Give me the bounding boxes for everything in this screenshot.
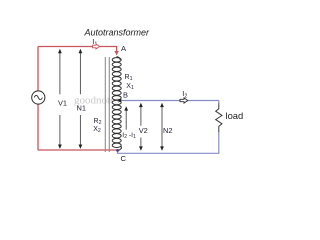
svg-text:N2: N2	[163, 126, 172, 135]
svg-text:B: B	[123, 91, 128, 100]
svg-text:Autotransformer: Autotransformer	[84, 27, 151, 37]
resistor load	[216, 104, 222, 133]
dimension V2	[140, 106, 142, 148]
wire right blue	[218, 101, 220, 105]
svg-text:X2: X2	[93, 126, 101, 134]
dimension N2	[161, 106, 163, 148]
wire bottom red	[38, 149, 118, 151]
arrow I2	[180, 98, 188, 103]
dimension V1	[59, 53, 61, 147]
svg-text:I2: I2	[182, 89, 187, 99]
arrow I1	[93, 44, 100, 49]
dimension N1	[79, 53, 81, 147]
svg-text:C: C	[121, 154, 127, 163]
svg-text:V1: V1	[58, 98, 67, 107]
winding coil	[112, 57, 121, 151]
core	[105, 57, 109, 152]
svg-text:I2 -I1: I2 -I1	[122, 132, 136, 140]
ac source	[32, 91, 45, 104]
wire bottom blue	[118, 151, 220, 154]
wire top red	[38, 47, 117, 52]
svg-text:load: load	[226, 110, 244, 121]
watermark	[74, 95, 119, 107]
wire left red	[37, 47, 39, 92]
node A arrowhead	[114, 51, 118, 56]
svg-text:R1: R1	[125, 74, 133, 82]
node B junction	[119, 99, 122, 102]
wire top blue	[121, 100, 219, 102]
svg-text:N1: N1	[77, 103, 86, 112]
svg-text:V2: V2	[139, 126, 148, 135]
svg-text:A: A	[121, 44, 127, 53]
node C junction	[116, 149, 119, 152]
arrow I2-I1	[125, 110, 127, 130]
svg-text:R2: R2	[94, 118, 102, 126]
